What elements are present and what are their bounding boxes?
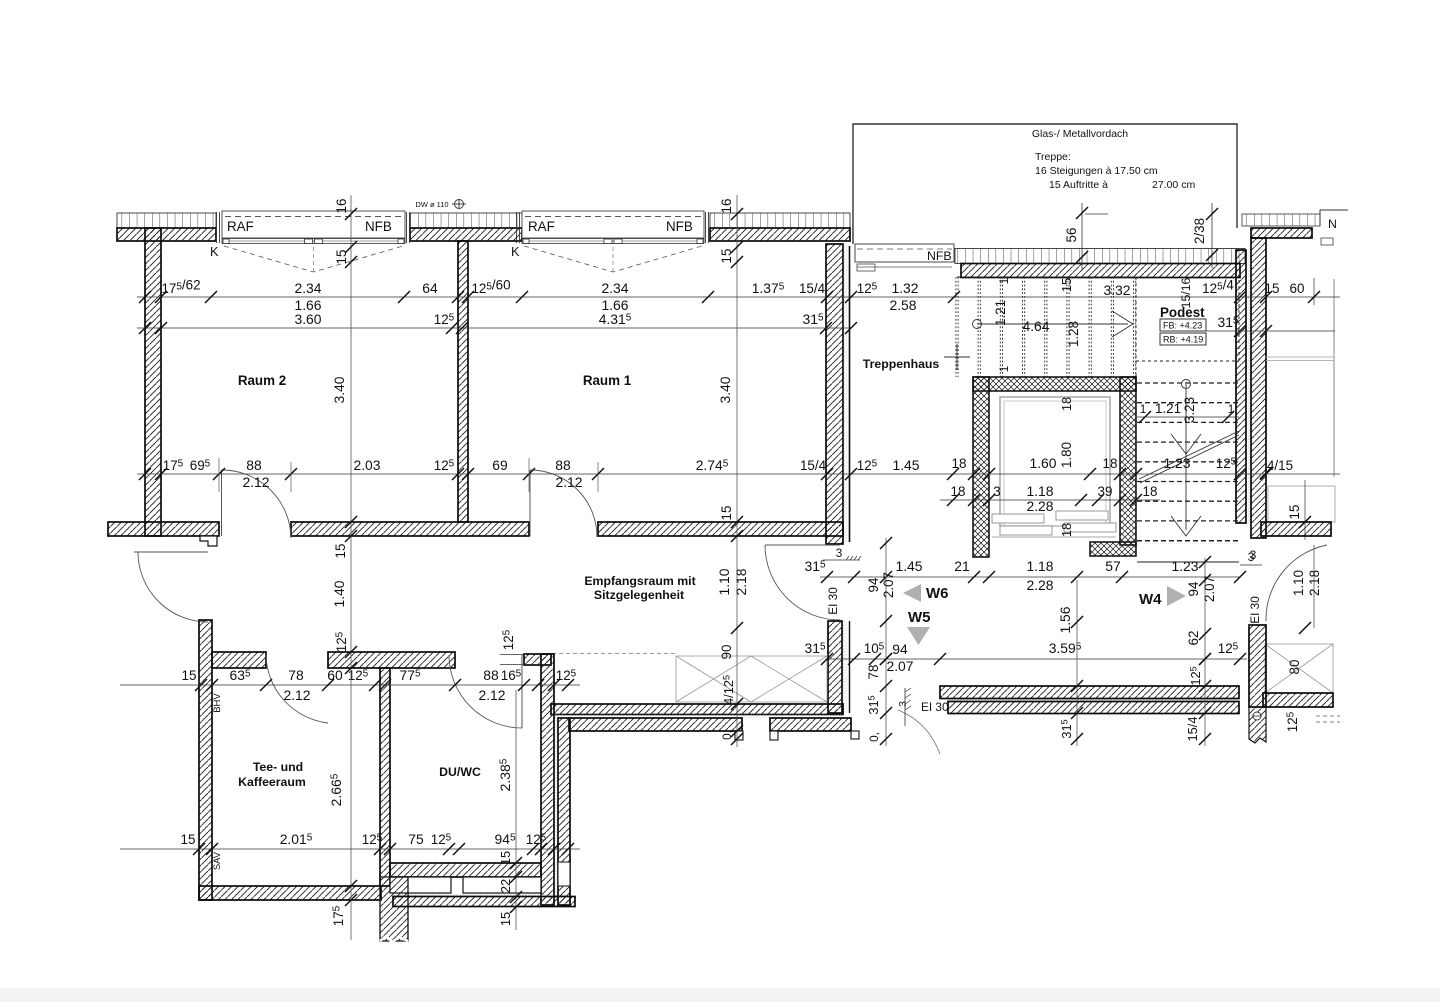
svg-text:88: 88 — [555, 457, 571, 473]
svg-text:15: 15 — [181, 832, 196, 847]
svg-text:N: N — [1328, 217, 1337, 231]
svg-text:EI 30: EI 30 — [826, 587, 840, 615]
svg-text:27.00 cm: 27.00 cm — [1152, 179, 1195, 191]
svg-text:1.32: 1.32 — [891, 280, 918, 296]
door jamb stubs — [735, 731, 743, 740]
dimension row C — [137, 473, 1340, 475]
svg-text:1.80: 1.80 — [1059, 442, 1074, 468]
scan edge shading bottom — [0, 988, 1440, 1002]
svg-text:Tee- und: Tee- und — [253, 760, 303, 774]
svg-text:18: 18 — [1143, 484, 1158, 499]
svg-text:15: 15 — [498, 912, 513, 926]
svg-text:2.34: 2.34 — [601, 280, 628, 296]
dimension row E — [827, 658, 1247, 660]
svg-text:1.10: 1.10 — [716, 568, 732, 595]
svg-text:2.12: 2.12 — [555, 474, 582, 490]
window N (cut) — [1320, 210, 1348, 226]
svg-text:1.40: 1.40 — [331, 580, 347, 607]
east wing wall below void — [1263, 693, 1333, 707]
svg-text:1.28: 1.28 — [1066, 321, 1081, 347]
svg-text:Kaffeeraum: Kaffeeraum — [238, 775, 306, 789]
svg-text:Glas-/ Metallvordach: Glas-/ Metallvordach — [1032, 128, 1128, 140]
svg-text:2.12: 2.12 — [478, 687, 505, 703]
svg-text:3: 3 — [836, 546, 843, 560]
wall below stair door — [828, 621, 842, 713]
svg-text:90: 90 — [719, 645, 734, 660]
DU/WC south wall inner leaf — [390, 863, 541, 877]
svg-text:1: 1 — [1140, 402, 1147, 416]
door Raum 1 — [529, 470, 531, 536]
svg-text:1: 1 — [997, 366, 1011, 373]
DU/WC door arc — [449, 655, 522, 728]
vertical ref line x886 — [885, 538, 887, 746]
east wing facade insulation band — [1242, 214, 1320, 226]
svg-text:3: 3 — [1248, 550, 1255, 564]
svg-text:15 Auftritte à: 15 Auftritte à — [1049, 179, 1108, 191]
elevator west wall — [973, 377, 989, 557]
svg-text:FB: +4.23: FB: +4.23 — [1163, 321, 1202, 331]
svg-text:39: 39 — [1098, 484, 1113, 499]
svg-text:2.18: 2.18 — [733, 568, 749, 595]
svg-text:15: 15 — [1287, 505, 1302, 520]
dim 1 1.21 1 — [1137, 416, 1239, 418]
section cut line — [1139, 431, 1239, 483]
svg-text:2.03: 2.03 — [353, 457, 380, 473]
vertical dim DU/WC east — [515, 690, 517, 930]
svg-text:1: 1 — [1228, 402, 1235, 416]
svg-text:94: 94 — [1186, 581, 1201, 596]
svg-text:1: 1 — [997, 278, 1011, 285]
svg-text:RAF: RAF — [227, 219, 254, 234]
dim 4/15 tick — [1260, 467, 1272, 479]
svg-text:2.58: 2.58 — [889, 297, 916, 313]
dim row 2.28 — [940, 499, 1160, 501]
stairs upper flight treads — [955, 277, 957, 377]
north facade insulation band left — [117, 213, 216, 228]
window RAF/NFB Raum 1 — [522, 211, 704, 238]
svg-text:15: 15 — [182, 668, 197, 683]
svg-text:RAF: RAF — [528, 219, 555, 234]
svg-text:2.07: 2.07 — [1202, 576, 1217, 602]
west exterior wall — [145, 228, 161, 536]
east wing wall inner leaf — [1251, 238, 1266, 538]
svg-text:94: 94 — [892, 641, 908, 657]
east wing north wall bar — [1251, 228, 1312, 238]
east wing wall outer leaf — [1236, 250, 1246, 523]
svg-text:NFB: NFB — [666, 219, 693, 234]
vertical ref line x351 — [350, 195, 352, 940]
dimension row F Tee south — [120, 848, 580, 850]
window RAF/NFB Raum 2 — [222, 211, 405, 238]
DU/WC north wall — [328, 652, 455, 668]
svg-text:18: 18 — [1059, 523, 1074, 537]
stair dashed boundary Podest — [1135, 277, 1137, 377]
svg-text:K: K — [210, 244, 219, 259]
svg-text:1.45: 1.45 — [895, 558, 922, 574]
svg-text:2.07: 2.07 — [881, 572, 896, 598]
wall Tee/DU — [380, 668, 390, 886]
svg-text:Raum 2: Raum 2 — [238, 373, 286, 388]
svg-text:Raum 1: Raum 1 — [583, 373, 632, 388]
svg-text:K: K — [511, 244, 520, 259]
svg-text:NFB: NFB — [365, 219, 392, 234]
east wing room south wall — [1261, 522, 1331, 536]
stair bottom boundary — [1137, 561, 1239, 563]
svg-text:15/4: 15/4 — [1185, 717, 1200, 742]
svg-text:18: 18 — [951, 484, 966, 499]
marker W6 — [903, 584, 921, 602]
north wall stair section — [961, 264, 1240, 278]
svg-text:78: 78 — [288, 667, 304, 683]
svg-text:EI 30: EI 30 — [1248, 596, 1262, 624]
DU/WC south wall outer leaf — [393, 897, 575, 907]
DU/WC south niches — [390, 877, 451, 893]
elevator top wall — [973, 377, 1136, 391]
svg-text:SAV: SAV — [212, 851, 223, 870]
svg-text:Treppe:: Treppe: — [1035, 151, 1071, 163]
DU/WC east wall — [541, 654, 554, 905]
svg-text:2.12: 2.12 — [242, 474, 269, 490]
door W5 exit arc — [898, 710, 940, 754]
svg-text:16 Steigungen à 17.50 cm: 16 Steigungen à 17.50 cm — [1035, 165, 1158, 177]
Glas-/Metallvordach canopy box — [853, 124, 1237, 244]
walking line down — [1182, 380, 1191, 389]
wall stub below — [380, 877, 408, 941]
svg-text:NFB: NFB — [927, 249, 952, 263]
svg-text:Treppenhaus: Treppenhaus — [863, 357, 940, 371]
window jambs — [216, 212, 218, 243]
svg-text:80: 80 — [1287, 660, 1302, 675]
svg-text:DU/WC: DU/WC — [439, 765, 481, 779]
svg-text:Empfangsraum mit: Empfangsraum mit — [584, 574, 695, 588]
svg-text:4/15: 4/15 — [1267, 458, 1293, 473]
svg-text:W4: W4 — [1139, 591, 1162, 608]
svg-text:78: 78 — [866, 665, 881, 680]
svg-text:15: 15 — [719, 506, 734, 521]
stair start cross — [944, 356, 970, 358]
corridor wall east leaf — [558, 718, 570, 905]
svg-text:3.32: 3.32 — [1103, 282, 1130, 298]
svg-text:1.18: 1.18 — [1026, 483, 1053, 499]
svg-text:2.28: 2.28 — [1026, 577, 1053, 593]
svg-text:18: 18 — [1059, 397, 1074, 411]
dim 56 vertical — [1081, 203, 1083, 270]
svg-text:15: 15 — [1265, 281, 1280, 296]
svg-text:3.60: 3.60 — [294, 311, 321, 327]
svg-text:1.45: 1.45 — [892, 457, 919, 473]
dim 2/38 vertical — [1211, 203, 1213, 268]
dimension row A — [137, 296, 1340, 298]
north wall segment C — [710, 228, 850, 241]
svg-text:16: 16 — [334, 199, 349, 214]
svg-text:1.21: 1.21 — [993, 300, 1008, 326]
dim 15 vertical east wing — [1304, 480, 1306, 540]
wall Raum2/Raum1 — [458, 241, 468, 522]
south wall lower leaf west part a — [569, 718, 742, 731]
void cross east wing — [1265, 644, 1333, 693]
svg-text:1.23: 1.23 — [1171, 558, 1198, 574]
svg-text:75: 75 — [408, 831, 424, 847]
svg-text:BHV: BHV — [212, 693, 223, 713]
svg-text:4.64: 4.64 — [1022, 318, 1049, 334]
svg-text:21: 21 — [954, 558, 970, 574]
south wall upper leaf east part — [940, 686, 1239, 699]
svg-text:16: 16 — [719, 199, 734, 214]
entry door west — [134, 551, 208, 553]
stair walking line up — [973, 320, 982, 329]
Tee room west wall — [199, 620, 212, 900]
svg-text:15: 15 — [333, 544, 348, 559]
svg-text:62: 62 — [1186, 631, 1201, 646]
svg-text:0,: 0, — [720, 730, 734, 740]
svg-text:3.40: 3.40 — [331, 376, 347, 403]
south wall upper leaf west part — [551, 704, 843, 715]
svg-text:15/4: 15/4 — [800, 458, 827, 473]
svg-text:15: 15 — [719, 249, 734, 264]
svg-text:15: 15 — [1059, 278, 1074, 292]
north wall segment B — [410, 228, 522, 241]
vertical dim 1.56 — [1076, 580, 1078, 746]
window NFB stairwell — [855, 244, 954, 262]
svg-text:Sitzgelegenheit: Sitzgelegenheit — [594, 588, 684, 602]
dimension row G Tee — [120, 684, 580, 686]
east wing west wall lower — [1249, 625, 1266, 707]
middle wall segment west — [108, 522, 219, 536]
svg-text:18: 18 — [1103, 456, 1118, 471]
void cross Empfangsraum — [676, 656, 827, 702]
vertical ref line x1205 — [1204, 558, 1206, 746]
svg-text:15: 15 — [498, 851, 513, 865]
svg-text:15/4: 15/4 — [799, 281, 826, 296]
svg-text:3: 3 — [897, 701, 909, 707]
north wall segment A — [117, 228, 216, 241]
svg-text:60: 60 — [327, 667, 343, 683]
svg-text:22: 22 — [498, 879, 513, 893]
svg-text:15: 15 — [334, 250, 349, 265]
door EI 30 Treppenhaus — [765, 544, 840, 546]
svg-text:3.40: 3.40 — [717, 376, 733, 403]
svg-text:2.12: 2.12 — [283, 687, 310, 703]
svg-text:3.23: 3.23 — [1182, 397, 1197, 423]
svg-text:2.28: 2.28 — [1026, 498, 1053, 514]
middle wall step detail — [200, 536, 217, 546]
svg-text:15/16: 15/16 — [1179, 277, 1193, 308]
svg-text:W6: W6 — [926, 585, 949, 602]
svg-text:DW ø 110: DW ø 110 — [415, 200, 448, 209]
stairs lower flight treads — [1137, 382, 1239, 384]
vertical ref line x737 — [736, 195, 738, 747]
svg-text:EI 30: EI 30 — [921, 700, 949, 714]
dimension row D — [820, 576, 1240, 578]
svg-text:W5: W5 — [908, 609, 931, 626]
middle wall segment Raum2 — [291, 522, 529, 536]
svg-text:2.07: 2.07 — [886, 658, 913, 674]
svg-text:2.34: 2.34 — [294, 280, 321, 296]
svg-text:RB: +4.19: RB: +4.19 — [1163, 335, 1203, 345]
svg-text:88: 88 — [483, 667, 499, 683]
svg-text:1.56: 1.56 — [1057, 606, 1073, 633]
svg-text:94: 94 — [866, 577, 881, 592]
north facade insulation band stair section — [955, 249, 1245, 264]
svg-text:57: 57 — [1105, 558, 1121, 574]
elevator south-east wall — [1090, 542, 1136, 556]
south wall lower leaf east part — [948, 702, 1239, 714]
elevator east wall — [1120, 377, 1136, 545]
svg-text:2/38: 2/38 — [1192, 218, 1207, 244]
svg-text:1.18: 1.18 — [1026, 558, 1053, 574]
dimension row B — [137, 327, 851, 329]
svg-text:60: 60 — [1290, 281, 1305, 296]
east wing gray furniture lines — [1266, 356, 1335, 358]
svg-text:64: 64 — [422, 280, 438, 296]
svg-text:1.21: 1.21 — [1155, 401, 1181, 416]
Tee room south wall — [199, 886, 381, 900]
svg-text:2.18: 2.18 — [1307, 570, 1322, 596]
elevator cabin — [1000, 397, 1110, 526]
svg-text:88: 88 — [246, 457, 262, 473]
svg-text:1.10: 1.10 — [1291, 570, 1306, 596]
Tee room door arc — [266, 655, 328, 723]
Raum 1 east wall — [826, 244, 843, 544]
middle wall segment Raum1-east — [598, 522, 843, 536]
svg-text:1.60: 1.60 — [1029, 455, 1056, 471]
DU/WC north wall jamb — [524, 654, 551, 665]
svg-text:56: 56 — [1064, 228, 1079, 243]
door Raum 2 — [221, 470, 223, 536]
Tee room north wall — [212, 652, 266, 668]
svg-text:3: 3 — [993, 484, 1000, 499]
svg-text:1.23: 1.23 — [1163, 455, 1190, 471]
dim row 15/60 extension — [1313, 278, 1315, 305]
svg-text:69: 69 — [492, 457, 508, 473]
elevator sliding door — [992, 514, 1044, 523]
svg-text:0,: 0, — [867, 732, 881, 742]
east wing wall stub with symbol — [1249, 707, 1266, 743]
south wall lower leaf west part b — [770, 718, 851, 731]
